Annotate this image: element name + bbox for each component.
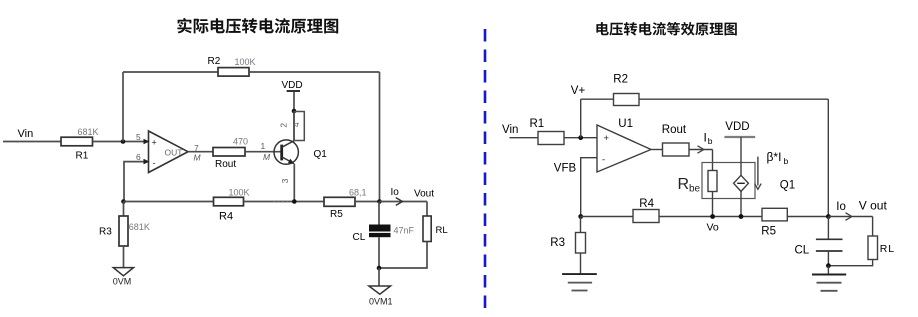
resistor RL (right)	[868, 236, 894, 260]
node dot: R3/R4/- junction	[121, 199, 126, 204]
wire: op-amp - input	[124, 162, 144, 202]
svg-text:0VM: 0VM	[113, 277, 132, 287]
svg-text:Vout: Vout	[414, 189, 434, 200]
svg-text:R: R	[678, 176, 690, 193]
wire: output to RL with Io arrow	[828, 199, 887, 221]
svg-text:R3: R3	[550, 237, 565, 249]
wire: V+ vertical	[580, 99, 582, 138]
svg-text:1: 1	[261, 141, 266, 151]
svg-text:0VM1: 0VM1	[369, 297, 393, 307]
wire: R1 to op-amp + input	[93, 141, 145, 143]
wire: CL top stem	[378, 202, 380, 226]
svg-text:R4: R4	[219, 210, 233, 222]
svg-text:b: b	[784, 156, 789, 166]
svg-text:β*I: β*I	[767, 150, 782, 164]
node dot: source bottom	[739, 214, 744, 219]
node dot: V+ junction	[578, 135, 583, 140]
current arrow beta*Ib	[755, 157, 762, 190]
title: 电压转电流等效原理图 (right)	[596, 22, 736, 36]
svg-text:Io: Io	[836, 201, 846, 213]
node dot: collector pins junction	[292, 109, 297, 114]
svg-text:OUT: OUT	[165, 147, 183, 157]
ground (right output, earth)	[812, 275, 846, 291]
capacitor CL (right)	[795, 239, 843, 256]
wire: top feedback right (right ckt)	[639, 98, 828, 100]
svg-text:R1: R1	[530, 118, 545, 130]
wire: R4 to emitter node	[244, 201, 325, 203]
svg-text:U1: U1	[618, 118, 633, 130]
wire: op-amp output	[188, 151, 213, 153]
svg-text:CL: CL	[353, 232, 366, 243]
wire: top feedback left (right ckt)	[581, 98, 614, 100]
resistor R4 100K	[214, 188, 250, 223]
wire: Vin input (right)	[510, 137, 539, 139]
svg-text:681K: 681K	[129, 222, 150, 232]
wire: R3 top stem (right)	[580, 217, 582, 233]
node dot: bottom junction	[377, 266, 382, 271]
svg-text:Q1: Q1	[314, 149, 328, 160]
wire: VDD stem to source	[740, 137, 742, 175]
ground 0VM	[113, 268, 134, 287]
svg-text:Vin: Vin	[502, 124, 518, 136]
node dot: output node	[377, 199, 382, 204]
svg-text:47nF: 47nF	[394, 225, 415, 235]
dependent current source (diamond)	[734, 175, 749, 191]
resistor R3 681K	[99, 216, 150, 246]
wire: output node to RL with Io arrow	[380, 187, 435, 205]
node dot: +input/feedback junction	[121, 139, 126, 144]
node dot: output node (right)	[826, 214, 831, 219]
svg-text:R5: R5	[330, 209, 343, 220]
svg-text:+: +	[152, 137, 157, 147]
wire: ground stem 0VM1	[378, 268, 380, 286]
wire: Rbe bottom stem	[712, 192, 714, 217]
svg-text:-: -	[602, 154, 605, 165]
wire: R3 top stem	[123, 202, 125, 217]
divider dashed line	[484, 29, 487, 316]
svg-text:M: M	[263, 152, 271, 162]
wire: CL bottom stem	[378, 237, 380, 268]
node dot: VFB bottom junction	[578, 214, 583, 219]
svg-text:CL: CL	[795, 244, 810, 256]
svg-text:3: 3	[280, 178, 290, 183]
resistor R5 68,1	[324, 188, 367, 220]
wire: R1 to op-amp +	[564, 137, 597, 139]
wire: pin4 collector loop	[294, 112, 304, 141]
resistor R2 100K	[208, 56, 256, 76]
svg-text:Vin: Vin	[18, 128, 34, 140]
resistor R3 (right)	[550, 233, 585, 254]
box: Q1 equivalent model	[702, 163, 755, 199]
resistor R5 (right)	[761, 208, 787, 237]
wire: top feedback right segment	[249, 71, 380, 73]
wire: R5 to output node	[355, 201, 380, 203]
power VDD (right)	[724, 121, 755, 137]
resistor Rout (right)	[662, 124, 689, 156]
svg-text:VDD: VDD	[725, 121, 749, 133]
svg-text:6: 6	[136, 152, 141, 162]
wire: Vin input	[3, 141, 61, 143]
wire: faint dotted overlap mark	[273, 200, 289, 202]
svg-text:100K: 100K	[235, 57, 256, 67]
wire: node to R4	[124, 201, 214, 203]
ground (below R3, earth)	[562, 274, 597, 290]
svg-text:V out: V out	[859, 199, 888, 213]
svg-text:R2: R2	[208, 56, 221, 67]
wire: Rout to Ib corner with arrow	[689, 146, 713, 153]
node dot: bottom junction (right)	[826, 263, 831, 268]
svg-text:5: 5	[136, 132, 141, 142]
svg-text:Rout: Rout	[215, 159, 236, 170]
svg-text:Vo: Vo	[707, 221, 719, 233]
wire: - input / VFB	[581, 158, 597, 217]
wire: CL top stem (right)	[827, 217, 829, 239]
wire: op-amp out to Rout	[651, 149, 663, 151]
svg-text:be: be	[689, 184, 701, 195]
resistor Rbe	[678, 171, 718, 195]
op-amp U1	[597, 118, 651, 172]
wire: right vertical rail	[827, 99, 829, 216]
svg-text:4: 4	[291, 122, 301, 127]
node dot: emitter junction	[292, 199, 297, 204]
svg-text:68,1: 68,1	[349, 188, 367, 198]
power VDD	[282, 80, 303, 91]
wire: RL bottom	[379, 242, 427, 269]
resistor R2 (right)	[613, 74, 639, 106]
svg-text:R4: R4	[639, 198, 654, 210]
wire: feedback vertical	[122, 72, 124, 142]
wire: R3 bottom stem (right)	[580, 253, 582, 274]
svg-text:RL: RL	[436, 225, 448, 236]
wire: down to RL	[426, 202, 428, 217]
svg-text:R2: R2	[613, 74, 628, 86]
svg-text:470: 470	[233, 137, 248, 147]
resistor R1 (right)	[530, 118, 565, 144]
svg-text:VDD: VDD	[282, 80, 303, 91]
wire: down into Rbe	[712, 150, 714, 171]
wire: source bottom stem	[740, 191, 742, 216]
svg-text:R5: R5	[761, 226, 776, 238]
svg-text:Rout: Rout	[662, 124, 687, 136]
wire: right vertical rail to output node	[379, 72, 381, 202]
wire: emitter to R4/R5 node	[293, 164, 295, 202]
wire: R5 to output node	[787, 216, 828, 218]
svg-text:100K: 100K	[229, 188, 250, 198]
wire: R4 to R5 through Vo	[659, 216, 762, 218]
svg-text:M: M	[194, 152, 202, 162]
svg-text:681K: 681K	[78, 127, 99, 137]
svg-text:VFB: VFB	[554, 163, 577, 175]
wire: VDD to collector	[293, 91, 295, 141]
wire: down to RL (right)	[872, 217, 874, 237]
wire: R3 bottom stem	[123, 246, 125, 268]
wire: top feedback left segment	[123, 71, 218, 73]
wire: RL bottom (right)	[828, 260, 872, 266]
wire: Rout to Q1 base	[245, 151, 281, 153]
label beta*Ib	[767, 150, 789, 166]
svg-text:I: I	[704, 130, 707, 144]
svg-text:R1: R1	[76, 151, 89, 162]
transistor Q1	[274, 140, 327, 164]
current label Ib	[704, 130, 713, 146]
resistor R1 681K	[61, 127, 99, 161]
pin 1 and M labels	[261, 141, 272, 162]
svg-text:R L: R L	[880, 243, 894, 255]
resistor RL	[423, 216, 448, 242]
wire: ground stem (right output)	[827, 266, 829, 275]
resistor Rout 470	[213, 137, 248, 170]
ground 0VM1	[369, 286, 393, 307]
title: 实际电压转电流原理图 (left)	[177, 18, 338, 34]
svg-text:2: 2	[279, 123, 289, 128]
svg-text:V+: V+	[571, 85, 586, 97]
op-amp U (OUT)	[136, 131, 202, 173]
svg-text:R3: R3	[99, 226, 112, 237]
wire: bottom to R4	[581, 216, 633, 218]
node dot: Rbe bottom	[710, 214, 715, 219]
svg-text:Q1: Q1	[780, 180, 795, 192]
svg-text:Io: Io	[391, 187, 400, 198]
resistor R4 (right)	[633, 198, 659, 223]
wire: CL bottom stem (right)	[827, 251, 829, 266]
svg-text:-: -	[153, 158, 156, 168]
svg-text:b: b	[708, 136, 713, 146]
svg-text:+: +	[604, 133, 610, 144]
capacitor CL 47nF	[353, 225, 415, 243]
